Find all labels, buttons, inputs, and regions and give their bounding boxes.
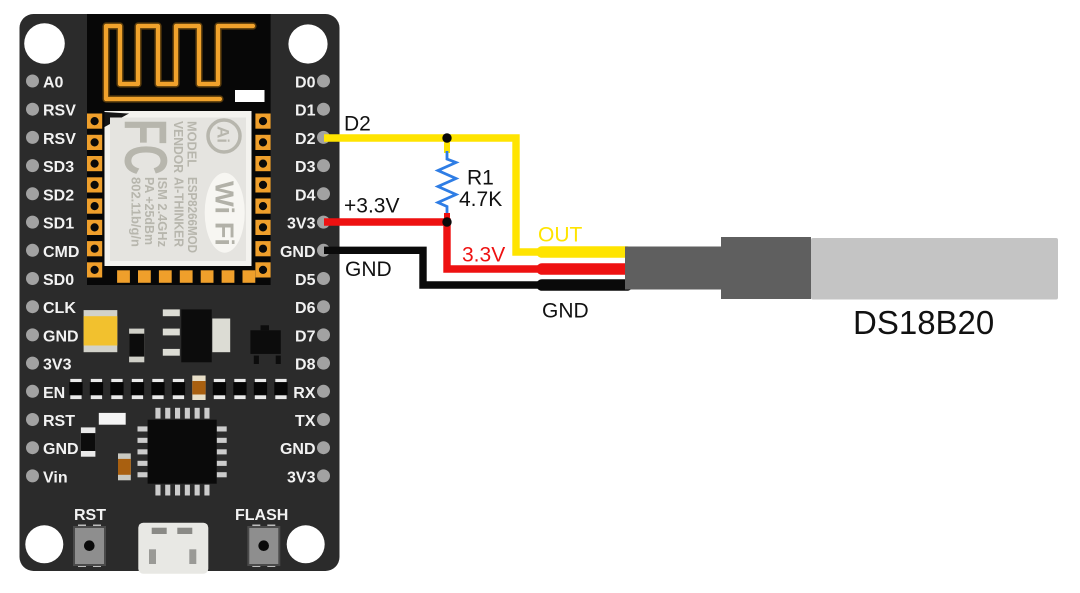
svg-text:Vin: Vin bbox=[43, 469, 68, 486]
svg-text:FC: FC bbox=[112, 119, 179, 175]
svg-text:SD1: SD1 bbox=[43, 216, 74, 233]
svg-text:DS18B20: DS18B20 bbox=[853, 304, 994, 341]
NodeMCU board PCB body bbox=[20, 14, 340, 571]
svg-text:3V3: 3V3 bbox=[287, 469, 316, 486]
module castellated pads left column bbox=[87, 114, 102, 278]
pin GND (left 14) bbox=[26, 441, 79, 458]
pin SD0 (left 8) bbox=[26, 272, 74, 289]
main MCU chip (QFP) bbox=[138, 408, 227, 496]
svg-text:GND: GND bbox=[280, 244, 316, 261]
label +3.3V bbox=[344, 195, 399, 218]
label 4.7K bbox=[459, 188, 502, 211]
pin A0 (left 1) bbox=[26, 75, 64, 92]
svg-text:EN: EN bbox=[43, 385, 65, 402]
DS18B20 lead OUT (yellow) bbox=[542, 246, 627, 258]
svg-text:D6: D6 bbox=[295, 300, 316, 317]
pin RSV (left 3) bbox=[26, 131, 76, 148]
label OUT (yellow) bbox=[538, 224, 583, 247]
voltage regulator bbox=[163, 309, 230, 362]
svg-text:D4: D4 bbox=[295, 187, 316, 204]
antenna / module dark region bbox=[87, 14, 271, 285]
RST button label bbox=[74, 507, 106, 524]
antenna matching component bbox=[235, 90, 265, 102]
pin GND (left 10) bbox=[26, 328, 79, 345]
svg-text:D2: D2 bbox=[295, 131, 316, 148]
DS18B20 lead GND (black) bbox=[542, 279, 627, 291]
svg-text:SD3: SD3 bbox=[43, 159, 74, 176]
small capacitor left of MCU bbox=[81, 427, 96, 456]
pin D0 (right 1) bbox=[295, 75, 330, 92]
svg-text:R1: R1 bbox=[467, 167, 494, 190]
pin 3V3 (right 15) bbox=[287, 469, 330, 486]
svg-text:SD0: SD0 bbox=[43, 272, 74, 289]
svg-text:D7: D7 bbox=[295, 328, 316, 345]
label R1 bbox=[467, 167, 494, 190]
pin D6 (right 9) bbox=[295, 300, 330, 317]
pin 3V3 (left 11) bbox=[26, 357, 72, 374]
pin 3V3 (right 6) bbox=[287, 216, 330, 233]
label D2 bbox=[344, 113, 371, 136]
pin SD1 (left 6) bbox=[26, 216, 74, 233]
wire 3.3V (red) bbox=[324, 222, 562, 269]
ISM / PA / 802.11 text bbox=[129, 177, 170, 247]
DS18B20 probe body bbox=[811, 238, 1058, 300]
DS18B20 cable bbox=[625, 247, 721, 290]
pin TX (right 13) bbox=[295, 413, 330, 430]
DS18B20 lead 3.3V (red) bbox=[542, 263, 627, 275]
svg-text:3.3V: 3.3V bbox=[462, 244, 505, 267]
DS18B20 collar bbox=[721, 237, 811, 299]
svg-text:802.11b/g/n: 802.11b/g/n bbox=[129, 177, 143, 247]
wire D2 signal (yellow) bbox=[324, 138, 562, 252]
pin RX (right 12) bbox=[293, 385, 330, 402]
svg-text:D5: D5 bbox=[295, 272, 316, 289]
pin RSV (left 2) bbox=[26, 103, 76, 120]
pin Vin (left 15) bbox=[26, 469, 68, 486]
pin D8 (right 11) bbox=[295, 357, 330, 374]
white component near RST bbox=[99, 413, 126, 425]
PCB meander antenna trace bbox=[106, 26, 253, 99]
svg-text:OUT: OUT bbox=[538, 224, 583, 247]
svg-text:GND: GND bbox=[43, 441, 79, 458]
pin GND (right 7) bbox=[280, 244, 330, 261]
svg-text:RX: RX bbox=[293, 385, 316, 402]
svg-text:3V3: 3V3 bbox=[43, 357, 72, 374]
FLASH push button bbox=[248, 525, 279, 568]
mounting hole top-left bbox=[24, 23, 65, 64]
pin CLK (left 9) bbox=[26, 300, 76, 317]
module castellated pads right column bbox=[255, 114, 270, 278]
svg-text:3V3: 3V3 bbox=[287, 216, 316, 233]
pin GND (right 14) bbox=[280, 441, 330, 458]
label GND (left) bbox=[345, 258, 392, 281]
svg-text:VENDOR: VENDOR bbox=[171, 121, 186, 174]
label DS18B20 bbox=[853, 304, 994, 341]
svg-text:AI-THINKER: AI-THINKER bbox=[172, 177, 187, 248]
svg-text:4.7K: 4.7K bbox=[459, 188, 502, 211]
svg-text:ISM 2.4GHz: ISM 2.4GHz bbox=[155, 177, 169, 247]
tantalum capacitor (brown) bbox=[118, 453, 131, 480]
svg-text:SD2: SD2 bbox=[43, 187, 74, 204]
svg-text:Wi Fi: Wi Fi bbox=[210, 181, 240, 246]
mounting hole top-right bbox=[288, 24, 327, 63]
pin D7 (right 10) bbox=[295, 328, 330, 345]
svg-text:D3: D3 bbox=[295, 159, 316, 176]
junction node on 3.3V wire bbox=[442, 217, 451, 226]
svg-text:D1: D1 bbox=[295, 103, 316, 120]
WiFi oval logo bbox=[205, 173, 245, 253]
RST push button bbox=[74, 525, 105, 568]
svg-text:GND: GND bbox=[43, 328, 79, 345]
pin D1 (right 2) bbox=[295, 103, 330, 120]
svg-text:A0: A0 bbox=[43, 75, 64, 92]
svg-text:TX: TX bbox=[295, 413, 316, 430]
pin SD2 (left 5) bbox=[26, 187, 74, 204]
module bottom pads row bbox=[117, 270, 255, 283]
pin D2 (right 3) bbox=[295, 131, 330, 148]
pin CMD (left 7) bbox=[26, 244, 79, 261]
junction node on D2 wire bbox=[442, 133, 451, 142]
micro-USB connector bbox=[138, 523, 208, 574]
transistor SOT-23 bbox=[250, 325, 280, 364]
small capacitor bbox=[129, 329, 144, 363]
svg-text:RSV: RSV bbox=[43, 103, 76, 120]
pin EN (left 12) bbox=[26, 385, 65, 402]
ESP-12 module shield bbox=[105, 111, 252, 266]
svg-text:RSV: RSV bbox=[43, 131, 76, 148]
svg-text:GND: GND bbox=[280, 441, 316, 458]
svg-text:GND: GND bbox=[542, 300, 589, 323]
FCC logo on shield bbox=[112, 119, 179, 175]
pin D5 (right 8) bbox=[295, 272, 330, 289]
pin SD3 (left 4) bbox=[26, 159, 74, 176]
pin RST (left 13) bbox=[26, 413, 75, 430]
svg-text:RST: RST bbox=[43, 413, 75, 430]
mounting hole bottom-left bbox=[25, 525, 63, 563]
svg-text:D2: D2 bbox=[344, 113, 371, 136]
wire GND (black) bbox=[324, 250, 562, 285]
MODEL / VENDOR text bbox=[171, 121, 200, 174]
mounting hole bottom-right bbox=[287, 525, 325, 563]
pin D3 (right 4) bbox=[295, 159, 330, 176]
svg-text:RST: RST bbox=[74, 507, 106, 524]
svg-text:D8: D8 bbox=[295, 357, 316, 374]
svg-text:+3.3V: +3.3V bbox=[344, 195, 399, 218]
ESP8266MOD / AI-THINKER text bbox=[172, 177, 201, 253]
FLASH button label bbox=[235, 507, 288, 524]
pin D4 (right 5) bbox=[295, 187, 330, 204]
svg-text:D0: D0 bbox=[295, 75, 316, 92]
svg-text:CMD: CMD bbox=[43, 244, 79, 261]
svg-text:GND: GND bbox=[345, 258, 392, 281]
resistor R1 4.7K bbox=[438, 141, 456, 223]
electrolytic capacitor (yellow) bbox=[84, 310, 118, 352]
label 3.3V (red) bbox=[462, 244, 505, 267]
svg-text:FLASH: FLASH bbox=[235, 507, 288, 524]
AI-Thinker round logo bbox=[208, 120, 240, 152]
svg-text:Ai: Ai bbox=[214, 126, 233, 143]
svg-text:PA +25dBm: PA +25dBm bbox=[142, 177, 156, 245]
resistor array row (EN row) bbox=[69, 376, 287, 401]
svg-text:CLK: CLK bbox=[43, 300, 76, 317]
label GND (center) bbox=[542, 300, 589, 323]
